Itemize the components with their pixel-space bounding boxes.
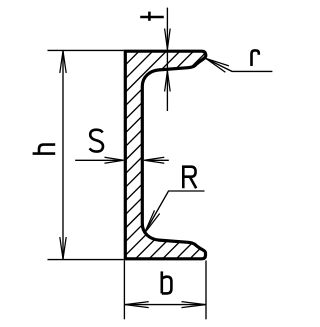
label h [33,145,56,154]
channel profile outline [125,51,206,259]
S left dimension line [75,159,123,161]
S left arrow [105,157,124,163]
r leader line [206,59,272,72]
b arrow right [182,302,206,308]
h arrow down [60,237,66,259]
R leader line [144,191,204,234]
b arrow left [125,302,149,308]
label R [183,167,196,189]
label b [162,271,172,293]
h dimension bottom extension line [48,259,124,261]
hatching [0,48,320,262]
h arrow up [60,51,66,73]
S right arrow [144,157,164,163]
R leader arrow [144,210,159,233]
b dimension line [124,304,206,306]
r leader arrow [206,58,229,72]
b right extension line [205,261,207,320]
h dimension top extension line [48,49,124,51]
t dimension line [166,8,168,111]
S right dimension line [144,159,169,161]
t arrow down [165,29,171,50]
label S [90,130,103,152]
label t [140,12,164,21]
h dimension line [62,50,64,259]
t arrow up [165,71,171,92]
b left extension line [123,261,125,320]
label r [252,50,259,66]
